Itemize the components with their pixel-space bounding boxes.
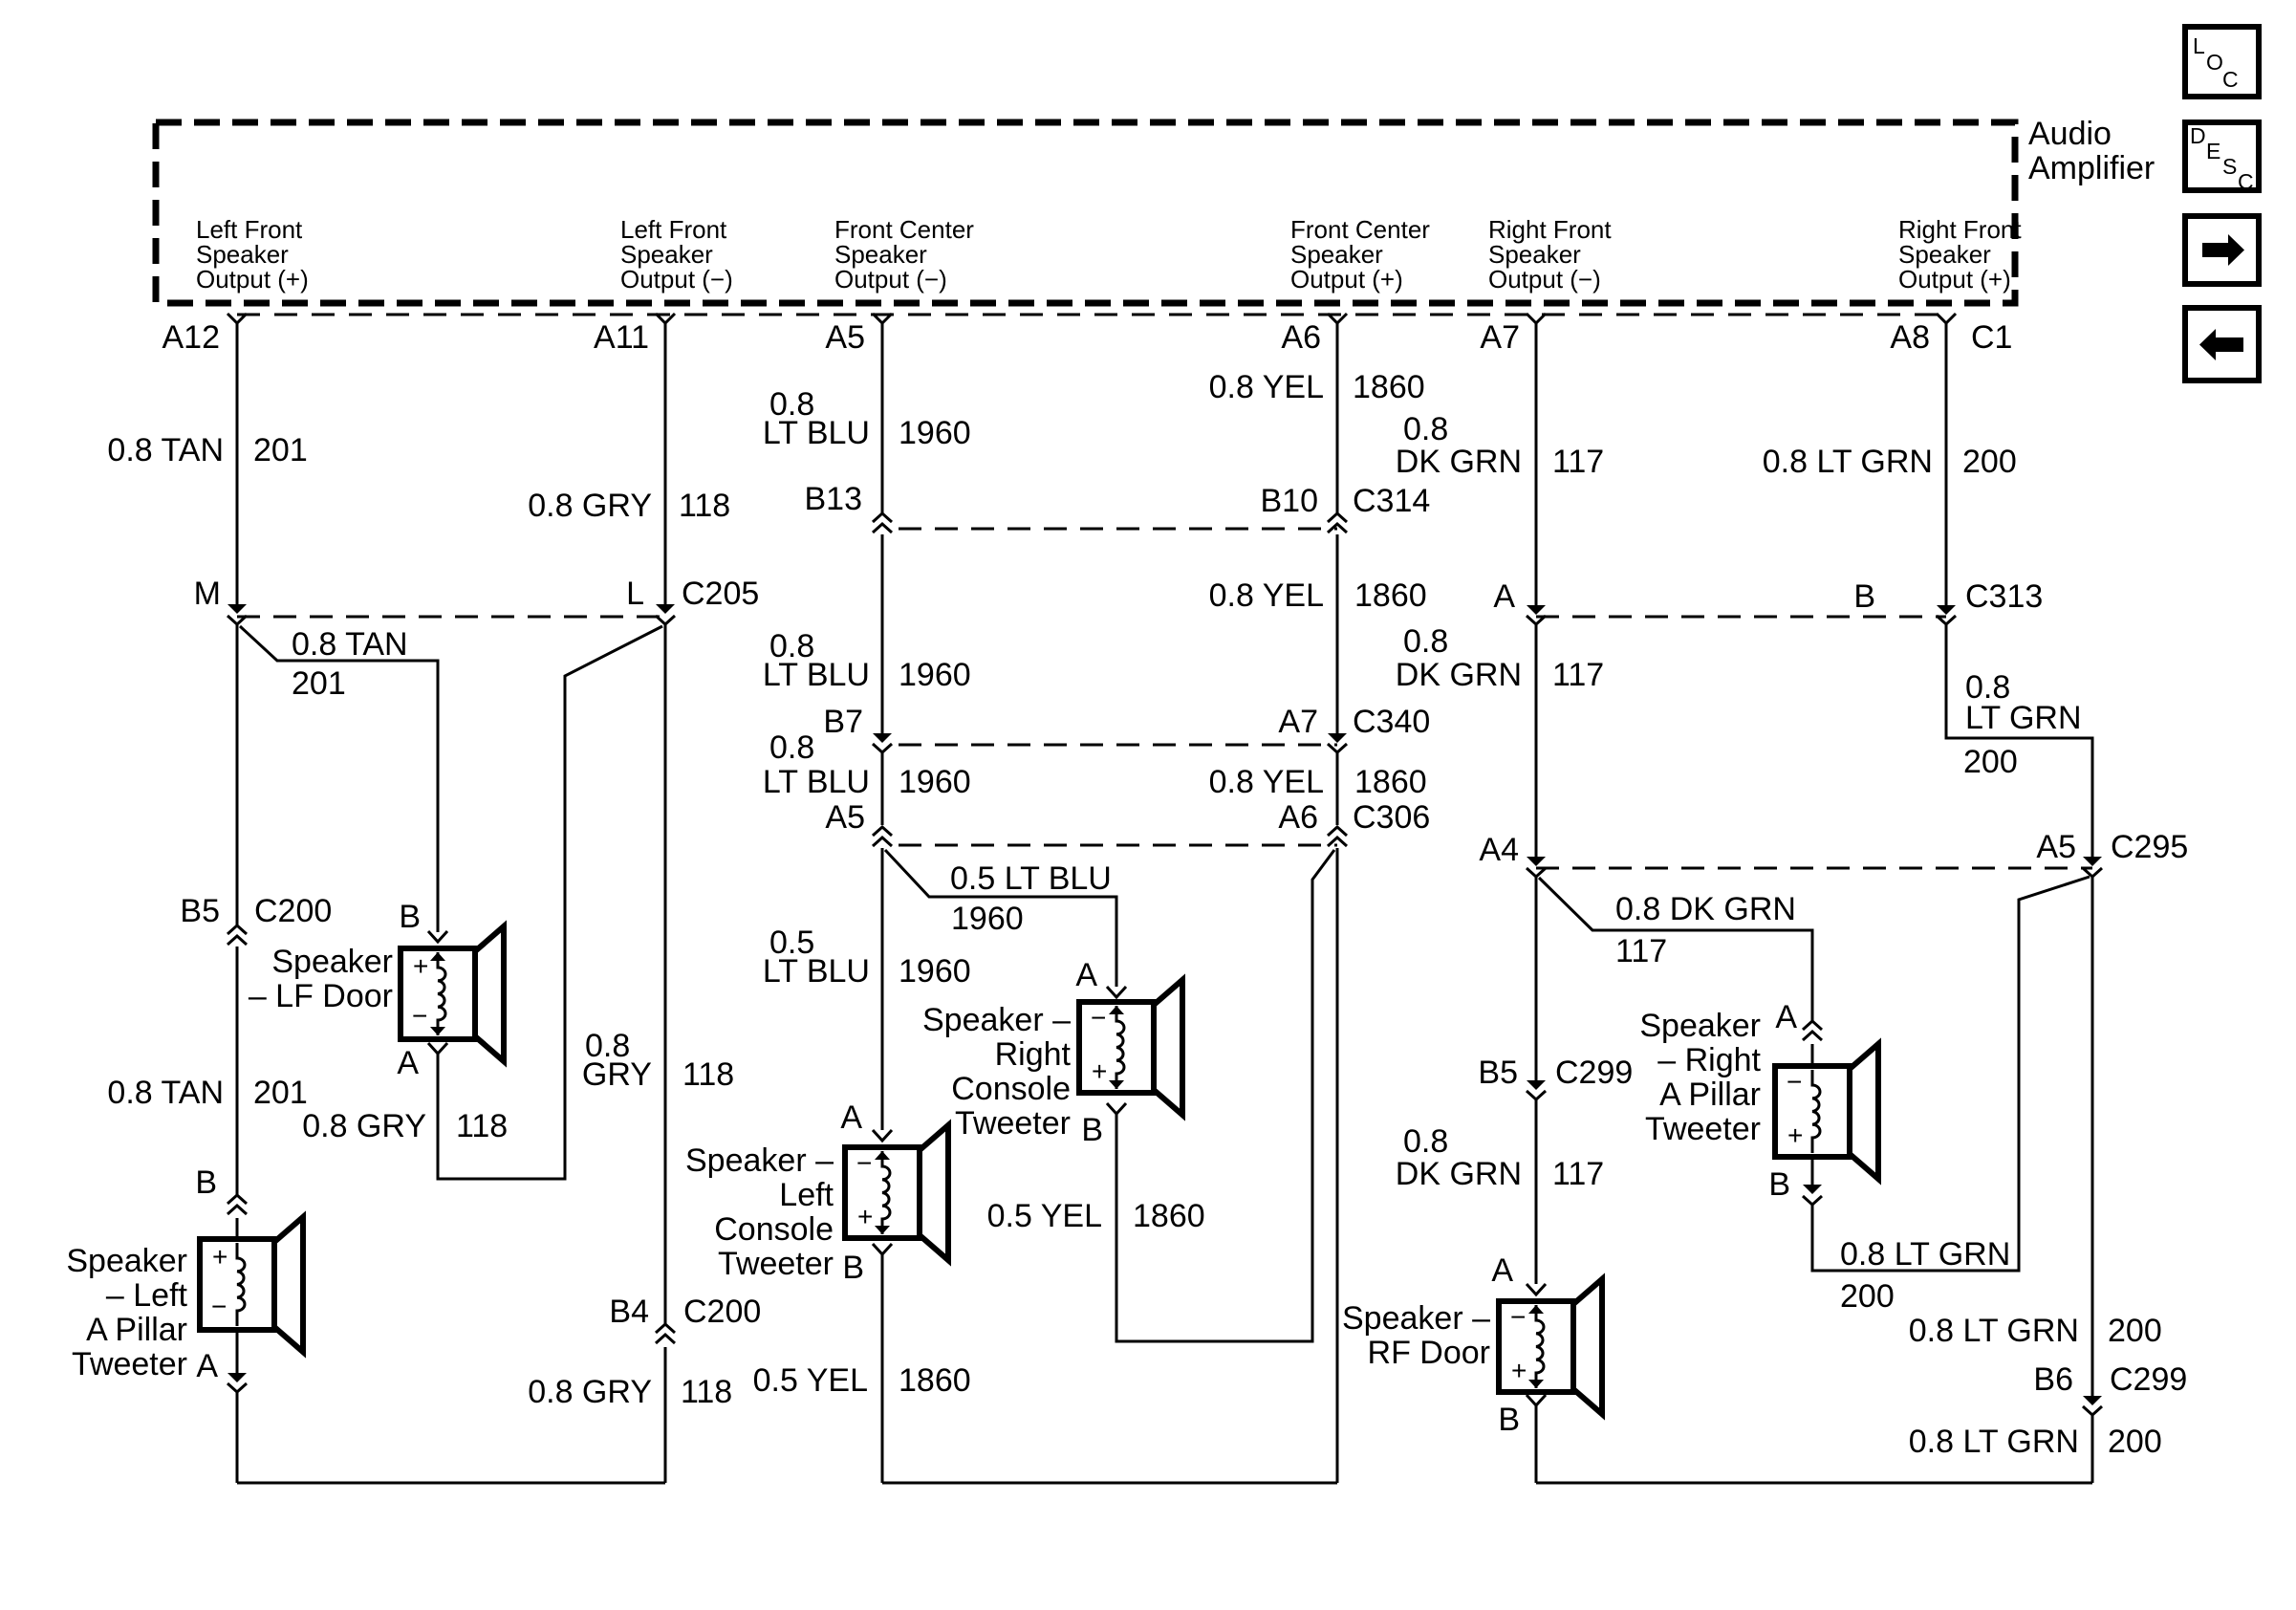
svg-text:B6: B6 [2033, 1361, 2073, 1398]
svg-text:B5: B5 [1478, 1055, 1518, 1091]
svg-text:+: + [1511, 1356, 1527, 1385]
wire 0.5 YEL 1860 from left console tweeter [881, 1254, 884, 1483]
speaker - RF Door [1499, 1301, 1573, 1392]
svg-text:200: 200 [2108, 1313, 2162, 1349]
svg-text:A12: A12 [162, 319, 221, 356]
svg-text:Output (+): Output (+) [196, 265, 309, 294]
wire 0.8 DK GRN 117 mid [1535, 624, 1538, 858]
svg-text:– LF Door: – LF Door [249, 978, 393, 1014]
svg-text:−: − [1091, 1003, 1106, 1033]
svg-text:A6: A6 [1281, 319, 1321, 356]
wire 0.8 GRY 118 below C205 [664, 624, 667, 1324]
wire 0.5 LT BLU 1960 to left console tweeter [881, 848, 884, 1130]
svg-text:0.8 TAN: 0.8 TAN [107, 432, 224, 468]
svg-text:Audio: Audio [2028, 116, 2112, 152]
svg-text:A5: A5 [825, 799, 865, 836]
svg-text:A: A [1775, 999, 1797, 1035]
terminal A of RF door speaker [1527, 1284, 1546, 1295]
terminal B of right A pillar tweeter [1811, 1157, 1814, 1186]
connector C299 pin B5 [1527, 1080, 1546, 1090]
connector C200 pin B4 [656, 1324, 675, 1333]
svg-text:0.8 TAN: 0.8 TAN [292, 626, 408, 663]
svg-text:0.8 TAN: 0.8 TAN [107, 1075, 224, 1111]
svg-text:C313: C313 [1965, 578, 2043, 615]
svg-text:1960: 1960 [899, 657, 971, 693]
svg-text:Output (−): Output (−) [620, 265, 733, 294]
svg-text:200: 200 [2108, 1424, 2162, 1460]
wire 0.8 DK GRN 117 lower [1535, 877, 1538, 1081]
svg-text:−: − [412, 1001, 427, 1031]
connector C205 dashed line [237, 616, 665, 619]
svg-text:A: A [1491, 1252, 1513, 1289]
svg-text:Output (−): Output (−) [834, 265, 947, 294]
svg-text:0.8 LT GRN: 0.8 LT GRN [1840, 1236, 2010, 1273]
connector C313 pin B arrow [1937, 605, 1956, 615]
svg-text:0.5 YEL: 0.5 YEL [987, 1198, 1102, 1234]
wire 0.8 LT GRN 200 lower [2091, 877, 2094, 1396]
wire 0.8 GRY 118 to bus [664, 1347, 667, 1483]
wire A6 0.8 YEL 1860 upper [1336, 323, 1339, 513]
svg-text:Tweeter: Tweeter [718, 1246, 834, 1282]
svg-text:117: 117 [1615, 933, 1667, 969]
svg-text:118: 118 [679, 488, 730, 524]
svg-text:117: 117 [1552, 1156, 1604, 1192]
svg-text:– Right: – Right [1657, 1042, 1761, 1078]
svg-text:1860: 1860 [899, 1362, 971, 1399]
svg-text:0.8 LT GRN: 0.8 LT GRN [1909, 1424, 2079, 1460]
svg-text:0.8 GRY: 0.8 GRY [528, 1374, 652, 1410]
svg-text:200: 200 [1963, 744, 2018, 780]
svg-text:A: A [397, 1045, 419, 1081]
svg-text:118: 118 [456, 1108, 508, 1144]
svg-text:1960: 1960 [899, 953, 971, 990]
center return bus wire [882, 1482, 1337, 1485]
svg-text:Output (−): Output (−) [1488, 265, 1601, 294]
svg-text:A8: A8 [1890, 319, 1930, 356]
speaker - LF Door [428, 931, 447, 942]
svg-text:LT BLU: LT BLU [763, 764, 870, 800]
icon box LOC [2185, 27, 2259, 97]
svg-text:200: 200 [1962, 444, 2017, 480]
svg-text:0.8 DK GRN: 0.8 DK GRN [1615, 891, 1796, 927]
svg-text:L: L [626, 576, 644, 612]
svg-text:B: B [1081, 1112, 1103, 1148]
svg-text:C299: C299 [1555, 1055, 1633, 1091]
terminal A of left A pillar tweeter [236, 1330, 239, 1374]
svg-text:B: B [399, 899, 421, 935]
svg-text:0.8 GRY: 0.8 GRY [528, 488, 652, 524]
svg-text:0.8: 0.8 [769, 729, 814, 766]
svg-text:DK GRN: DK GRN [1396, 444, 1522, 480]
svg-text:201: 201 [253, 1075, 308, 1111]
svg-text:+: + [1092, 1056, 1107, 1086]
svg-text:0.8 LT GRN: 0.8 LT GRN [1763, 444, 1933, 480]
svg-text:C200: C200 [254, 893, 332, 929]
svg-text:B: B [1853, 578, 1875, 615]
svg-text:E: E [2206, 139, 2220, 163]
svg-text:Output (+): Output (+) [1898, 265, 2011, 294]
connector C205 pin M arrow [227, 604, 247, 614]
connector C295 dashed line [1536, 867, 2092, 870]
svg-text:A7: A7 [1480, 319, 1520, 356]
icon box left arrow [2185, 308, 2259, 381]
wire 0.8 LT GRN 200 jog [1946, 624, 2092, 858]
connector C314 pin B13 [873, 513, 892, 522]
speaker - Right Console Tweeter [1079, 1002, 1154, 1093]
wire 0.8 LT GRN 200 from RF door to bus [1535, 1405, 1538, 1483]
branch wire 0.8 DK GRN 117 to right A pillar tweeter [1539, 878, 1812, 1021]
svg-text:1960: 1960 [899, 415, 971, 451]
svg-text:1960: 1960 [899, 764, 971, 800]
svg-text:C340: C340 [1353, 704, 1430, 740]
svg-text:201: 201 [253, 432, 308, 468]
amp connector C1 dashed interface line [237, 314, 1946, 316]
connector C313 dashed line [1536, 616, 1946, 619]
svg-text:LT BLU: LT BLU [763, 657, 870, 693]
wire 0.8 YEL 1860 mid [1336, 534, 1339, 734]
connector C340 pin B7 [873, 733, 892, 743]
icon box DESC [2185, 122, 2259, 190]
terminal A of right console tweeter [1107, 987, 1126, 997]
wire 0.8 TAN 201 to tweeter [236, 946, 239, 1195]
svg-text:C1: C1 [1971, 319, 2012, 356]
wire 0.8 GRY 118 return from LF door [438, 626, 662, 1179]
wire 0.8 TAN 201 below C205 [236, 624, 239, 925]
svg-text:A6: A6 [1278, 799, 1318, 836]
svg-text:L: L [2193, 33, 2205, 58]
svg-text:A: A [840, 1099, 862, 1136]
wire 0.5 YEL 1860 return to bus [1336, 848, 1339, 1483]
terminal A of left console tweeter [873, 1130, 892, 1141]
svg-text:A5: A5 [2036, 829, 2076, 865]
connector C340 pin A7 [1328, 733, 1347, 743]
svg-text:201: 201 [292, 665, 346, 702]
svg-text:C: C [2238, 169, 2254, 194]
svg-text:Tweeter: Tweeter [1645, 1111, 1761, 1147]
svg-text:0.8 YEL: 0.8 YEL [1209, 764, 1324, 800]
svg-text:RF Door: RF Door [1368, 1335, 1490, 1371]
svg-text:B5: B5 [180, 893, 220, 929]
svg-text:LT BLU: LT BLU [763, 415, 870, 451]
svg-text:C314: C314 [1353, 483, 1430, 519]
svg-text:LT GRN: LT GRN [1965, 700, 2082, 736]
svg-text:C: C [2222, 67, 2239, 92]
svg-text:B13: B13 [805, 481, 863, 517]
svg-text:O: O [2206, 50, 2223, 75]
svg-text:B4: B4 [609, 1294, 649, 1330]
svg-text:C200: C200 [683, 1294, 761, 1330]
svg-text:C295: C295 [2111, 829, 2188, 865]
connector C306 pin A6 [1328, 827, 1347, 836]
terminal B of right console tweeter [1107, 1103, 1126, 1114]
svg-text:B: B [1768, 1166, 1790, 1203]
svg-text:Speaker: Speaker [1639, 1008, 1761, 1044]
svg-text:A: A [1075, 957, 1097, 993]
svg-text:Speaker –: Speaker – [685, 1142, 834, 1179]
svg-text:C306: C306 [1353, 799, 1430, 836]
svg-text:A11: A11 [594, 319, 649, 356]
svg-text:0.8 YEL: 0.8 YEL [1209, 369, 1324, 405]
svg-text:200: 200 [1840, 1278, 1895, 1315]
svg-text:1860: 1860 [1133, 1198, 1205, 1234]
connector C205 pin M chevron [227, 616, 247, 624]
svg-text:1860: 1860 [1353, 369, 1425, 405]
wire 0.8 YEL 1860 lower [1336, 752, 1339, 825]
wire A8 0.8 LT GRN 200 upper [1945, 323, 1948, 606]
svg-text:B7: B7 [823, 704, 863, 740]
svg-text:118: 118 [682, 1056, 734, 1093]
connector C295 pin A4 arrow [1527, 857, 1546, 866]
svg-text:A Pillar: A Pillar [86, 1312, 187, 1348]
svg-text:Speaker –: Speaker – [922, 1002, 1071, 1038]
svg-text:+: + [212, 1242, 227, 1272]
svg-text:GRY: GRY [582, 1056, 652, 1093]
svg-text:Amplifier: Amplifier [2028, 150, 2155, 186]
svg-text:117: 117 [1552, 444, 1604, 480]
terminal B of RF door speaker [1527, 1395, 1546, 1405]
svg-text:0.8 YEL: 0.8 YEL [1209, 577, 1324, 614]
svg-text:A5: A5 [825, 319, 865, 356]
connector C200 pin B5 [227, 925, 247, 934]
svg-text:S: S [2222, 154, 2237, 179]
left return bus wire [237, 1482, 665, 1485]
terminal B of left console tweeter [873, 1244, 892, 1254]
svg-text:LT BLU: LT BLU [763, 953, 870, 990]
svg-text:0.8: 0.8 [1403, 623, 1448, 660]
terminal A of right A pillar tweeter [1803, 1021, 1822, 1030]
svg-text:−: − [1787, 1067, 1802, 1097]
svg-text:A: A [1493, 578, 1515, 615]
connector C205 pin L chevron [656, 616, 675, 624]
svg-text:Output (+): Output (+) [1290, 265, 1403, 294]
svg-text:Right: Right [995, 1036, 1072, 1073]
wire 0.8 DK GRN 117 to RF door [1535, 1099, 1538, 1284]
wire 0.8 LT GRN 200 from tweeter to C295 [1812, 877, 2090, 1271]
wire 0.5 YEL 1860 from right console tweeter [1116, 850, 1334, 1341]
svg-text:A4: A4 [1479, 832, 1519, 868]
svg-text:+: + [857, 1202, 873, 1231]
right return bus wire [1536, 1482, 2092, 1485]
speaker - Left A Pillar Tweeter [200, 1239, 274, 1330]
svg-text:Console: Console [714, 1211, 834, 1248]
wire to left return bus [236, 1392, 239, 1483]
svg-text:M: M [194, 576, 221, 612]
svg-text:B10: B10 [1261, 483, 1319, 519]
icon box right arrow [2185, 216, 2259, 284]
svg-text:– Left: – Left [106, 1277, 188, 1314]
speaker - Right A Pillar Tweeter [1775, 1066, 1850, 1157]
svg-text:1860: 1860 [1354, 764, 1427, 800]
svg-text:0.8 GRY: 0.8 GRY [302, 1108, 426, 1144]
wire 0.8 LT GRN 200 to bus [2091, 1415, 2094, 1483]
svg-text:+: + [413, 951, 428, 981]
svg-text:DK GRN: DK GRN [1396, 1156, 1522, 1192]
svg-text:D: D [2190, 123, 2206, 148]
connector C340 dashed line [899, 744, 1337, 747]
terminal A of LF door speaker [428, 1043, 447, 1054]
svg-text:Speaker: Speaker [271, 944, 393, 980]
pin terminal forks at amp connector [227, 314, 247, 323]
svg-text:B: B [1498, 1402, 1520, 1438]
speaker - Left Console Tweeter [845, 1147, 920, 1238]
svg-text:0.5 YEL: 0.5 YEL [753, 1362, 868, 1399]
svg-text:−: − [211, 1292, 227, 1321]
svg-text:−: − [856, 1148, 872, 1178]
svg-text:Tweeter: Tweeter [955, 1105, 1071, 1142]
svg-text:C205: C205 [682, 576, 759, 612]
wire 0.8 LT BLU 1960 lower [881, 752, 884, 825]
connector C314 dashed line [899, 528, 1337, 531]
connector C299 pin B6 [2083, 1396, 2102, 1405]
connector C314 pin B10 [1328, 513, 1347, 522]
svg-text:Speaker: Speaker [66, 1243, 187, 1279]
connector C306 pin A5 [873, 827, 892, 836]
connector C205 pin L arrow [656, 604, 675, 614]
svg-text:0.8 LT GRN: 0.8 LT GRN [1909, 1313, 2079, 1349]
svg-text:0.8: 0.8 [1403, 1123, 1448, 1160]
wire A5 0.8 LT BLU 1960 upper [881, 323, 884, 513]
svg-text:118: 118 [681, 1374, 732, 1410]
audio amplifier dashed box [156, 122, 2015, 303]
svg-text:Left: Left [779, 1177, 834, 1213]
svg-text:A7: A7 [1278, 704, 1318, 740]
svg-text:DK GRN: DK GRN [1396, 657, 1522, 693]
svg-text:1960: 1960 [951, 901, 1024, 937]
wire A11 0.8 GRY 118 upper [664, 323, 667, 605]
branch wire 0.8 TAN 201 to LF door speaker [240, 626, 438, 932]
svg-text:−: − [1510, 1302, 1526, 1332]
svg-text:Speaker –: Speaker – [1342, 1300, 1490, 1337]
connector C295 pin A5 arrow [2083, 857, 2102, 866]
svg-text:A Pillar: A Pillar [1659, 1077, 1761, 1113]
connector C313 pin A arrow [1527, 605, 1546, 615]
svg-text:0.8: 0.8 [1403, 411, 1448, 447]
wire A7 0.8 DK GRN 117 upper [1535, 323, 1538, 606]
svg-text:Console: Console [951, 1071, 1071, 1107]
svg-text:0.5 LT BLU: 0.5 LT BLU [950, 860, 1112, 897]
svg-text:C299: C299 [2110, 1361, 2187, 1398]
svg-text:117: 117 [1552, 657, 1604, 693]
svg-text:A: A [196, 1348, 218, 1384]
svg-text:1860: 1860 [1354, 577, 1427, 614]
svg-text:B: B [195, 1164, 217, 1201]
wire 0.8 LT BLU 1960 mid [881, 534, 884, 734]
svg-text:+: + [1787, 1120, 1803, 1150]
wire A12 0.8 TAN 201 upper [236, 323, 239, 605]
connector C306 dashed line [899, 844, 1337, 847]
svg-text:Tweeter: Tweeter [72, 1346, 187, 1382]
branch wire 0.5 LT BLU 1960 to right console tweeter [885, 850, 1116, 987]
terminal B of left A pillar tweeter [227, 1195, 247, 1204]
svg-text:B: B [842, 1250, 864, 1286]
